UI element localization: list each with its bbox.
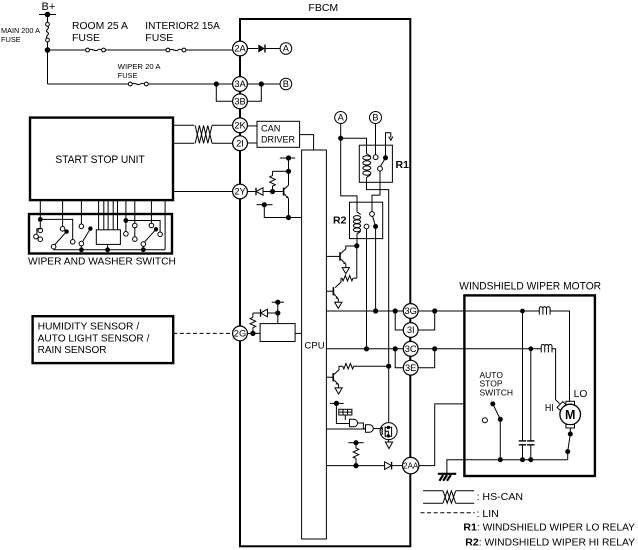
wire tick down to bottom rail (264, 205, 288, 218)
svg-text:2K: 2K (234, 121, 246, 131)
washer switch junction (38, 217, 43, 222)
washer contact 1 (38, 228, 43, 233)
svg-text:M: M (565, 408, 575, 422)
arrow feed marker (389, 137, 393, 141)
connector B top (280, 78, 292, 90)
junction left of 3A for 3B loop (214, 81, 219, 86)
label CAN DRIVER (261, 124, 295, 145)
auto stop switch pivot (498, 417, 503, 422)
svg-text:A: A (338, 113, 345, 123)
wire bottom rail to CPU (289, 217, 302, 219)
node 3E (403, 360, 418, 375)
svg-text:: HS-CAN: : HS-CAN (477, 491, 524, 503)
wire CPU to MOSFET gate (326, 428, 365, 430)
relay R2 armature lever (373, 216, 376, 226)
wire washer branch (40, 219, 72, 239)
washer branch contact (70, 240, 75, 245)
wire choke to HI brush (552, 349, 560, 404)
connector A inside FBCM (335, 112, 347, 124)
wire supply to input box top (277, 302, 279, 323)
junction bus mist (141, 247, 146, 252)
node 3G (403, 304, 418, 319)
svg-text:INTERIOR2 15A: INTERIOR2 15A (145, 21, 220, 32)
node 3A (233, 77, 248, 92)
switch box connector wires from SSU (40, 200, 165, 249)
svg-text:CAN: CAN (261, 124, 280, 134)
wire A junction down to R2 coil (341, 138, 357, 211)
junction R2 driver node (354, 243, 359, 248)
resistor R1 drive (341, 364, 389, 369)
wire junction down to wiper fuse line (47, 50, 49, 84)
wire C2 to bus (80, 246, 82, 250)
wire A down to feed junction (340, 124, 342, 139)
choke coil LO (539, 307, 550, 315)
diode D1 at 2A output (258, 45, 265, 53)
wire 2Y to input diode (247, 191, 256, 193)
label ROOM 25 A FUSE (72, 21, 128, 44)
svg-text:ROOM 25 A: ROOM 25 A (72, 21, 128, 32)
mist contact right (158, 232, 163, 237)
junction A feed (338, 136, 343, 141)
wire diode to supply (268, 312, 278, 314)
wire R1 common to feed arrow (386, 133, 391, 158)
mist contact L4 (124, 232, 129, 237)
svg-text:R2: R2 (465, 536, 479, 548)
wire pivot to ground bus (499, 419, 501, 459)
switch ground bus (54, 248, 166, 251)
connector A top (280, 43, 292, 55)
svg-text:MAIN 200 A: MAIN 200 A (1, 28, 40, 35)
node 3B (233, 94, 248, 109)
wire 3B loop left (216, 84, 232, 101)
svg-text:B: B (372, 113, 378, 123)
wire 3C line inside motor box (464, 348, 541, 350)
relay R1 box (359, 145, 392, 182)
svg-text:2Y: 2Y (234, 187, 245, 197)
wire choke to LO brush (550, 311, 569, 401)
node 2AA (403, 457, 419, 473)
svg-text:AUTO LIGHT SENSOR /: AUTO LIGHT SENSOR / (38, 333, 150, 344)
junction bus C (79, 247, 84, 252)
junction bus auto stop (498, 457, 503, 462)
wiper lever pivot C3 (88, 226, 92, 230)
svg-text:FUSE: FUSE (145, 33, 173, 44)
junction bus washer (105, 247, 110, 252)
label MAIN 200 A FUSE (1, 28, 40, 44)
svg-text:CPU: CPU (305, 341, 325, 352)
wire ROOM fuse to INTERIOR2 fuse (105, 49, 166, 51)
svg-text:2I: 2I (236, 138, 244, 148)
wire emitter down to bottom rail (288, 198, 290, 217)
relay R1 contact NC from B (373, 155, 378, 160)
node 3I (403, 323, 418, 338)
resistor pull-up at 2Y (270, 171, 276, 191)
wire 2I to CAN DRIVER (247, 142, 257, 144)
wire twisted pair to 2K (212, 124, 233, 126)
wire R2 coil bottom to driver node (356, 235, 358, 246)
svg-text:START STOP UNIT: START STOP UNIT (55, 154, 145, 166)
supply tick 2AA pull-up (348, 440, 363, 445)
wire 3E loop right (418, 349, 435, 368)
junction 3I loop left (393, 308, 398, 313)
wire 3C to motor (418, 348, 464, 350)
dashed LIN wire to 2G (173, 332, 232, 334)
node 2K (233, 118, 248, 133)
svg-text:WIPER AND WASHER SWITCH: WIPER AND WASHER SWITCH (28, 256, 176, 268)
svg-text:2A: 2A (234, 44, 246, 54)
twisted pair HS-CAN to 2K 2I (195, 126, 212, 144)
mist switch junction (124, 218, 129, 223)
wire supply tick to collector node (288, 158, 290, 171)
diode to 2AA (385, 462, 392, 470)
legend HS-CAN symbol (423, 491, 474, 503)
fuse ROOM 25 A (86, 48, 106, 52)
ground arrow Q4 (385, 442, 392, 449)
junction bus cap2 (528, 457, 533, 462)
oscillator box (339, 409, 352, 420)
connector B inside FBCM (370, 112, 382, 124)
relay R2 NO contact (364, 224, 369, 229)
svg-text:3I: 3I (407, 325, 415, 335)
wire fusible link to junction (47, 42, 49, 50)
svg-text:WINDSHIELD WIPER MOTOR: WINDSHIELD WIPER MOTOR (459, 281, 601, 293)
wire FBCM edge below 2G (239, 341, 241, 546)
mist contact L5a (133, 223, 138, 228)
mist lever (144, 229, 156, 242)
WINDSHIELD WIPER MOTOR box (464, 295, 595, 476)
wire CAN DRIVER to CPU (300, 135, 314, 150)
transistor Q1 R2 driver (326, 246, 356, 268)
junction 3I loop right (432, 308, 437, 313)
wire A junction to R1 coil (341, 138, 367, 153)
node 2Y (233, 184, 248, 199)
wire washer unit to bus (107, 244, 109, 249)
wire junction to connector B (261, 83, 280, 85)
junction R2 common on 3G line (373, 308, 378, 313)
FBCM box (240, 19, 410, 546)
node 3C (403, 341, 418, 356)
junction 2G divider (250, 331, 255, 336)
transistor Q5 at 2Y (284, 171, 289, 198)
washer switch pole wire (39, 219, 41, 228)
wire FBCM edge 2Y to 2G (239, 199, 241, 326)
wire twisted pair to 2I (212, 142, 233, 144)
relay R1 coil (363, 153, 371, 178)
buffer gate G1 (350, 419, 358, 427)
wire diode to connector A (265, 48, 280, 50)
svg-text:R1: R1 (396, 159, 410, 171)
wire driver node to resistor (356, 246, 358, 278)
motor M (557, 401, 580, 428)
wire 3A to junction right (248, 83, 262, 85)
transistor Q2 (326, 278, 341, 302)
legend LIN dashed (421, 512, 475, 514)
svg-text:R1: R1 (463, 521, 477, 533)
wire G2 to MOSFET gate (373, 428, 381, 430)
commutator dot upper (568, 432, 573, 437)
wiper switch lever B (55, 232, 67, 245)
svg-text:: WINDSHIELD WIPER HI RELAY: : WINDSHIELD WIPER HI RELAY (479, 536, 635, 548)
fuse INTERIOR2 15A (166, 48, 186, 52)
svg-text:B+: B+ (42, 1, 56, 13)
node 2A (233, 41, 248, 56)
capacitor C1 (519, 311, 526, 460)
svg-text:DRIVER: DRIVER (261, 135, 295, 145)
wire SSU to 2Y (173, 191, 233, 193)
washer contact 3 (34, 234, 39, 239)
wire R2 NO down to 3C line (366, 229, 368, 349)
wire R2 common down to 3G line (375, 229, 377, 311)
mist moving contact (141, 242, 146, 247)
svg-text:FBCM: FBCM (308, 2, 338, 14)
junction bus cap1 (520, 457, 525, 462)
WIPER AND WASHER SWITCH box (29, 214, 172, 254)
clamp diode at 2G (261, 309, 268, 317)
wire SSU to twisted pair bottom (173, 142, 194, 144)
wiper switch contact C1 (79, 224, 84, 229)
ground arrow Q1 (342, 268, 349, 274)
label AUTO STOP SWITCH (480, 370, 514, 397)
wire B down to R1 contact (375, 124, 377, 155)
ground arrow Q3 (335, 388, 342, 394)
junction at 2Y base node (270, 189, 275, 194)
wire diode to 2AA node (392, 465, 403, 467)
svg-text:2AA: 2AA (403, 462, 419, 471)
wire tick to gate chain (336, 403, 349, 423)
wire 2K to CAN DRIVER (247, 125, 257, 127)
commutator link (568, 434, 571, 452)
wire 3B loop right (248, 84, 262, 101)
resistor 2AA pull-up (353, 443, 359, 466)
wire resistor to collector node (273, 170, 289, 172)
svg-text:FUSE: FUSE (72, 33, 100, 44)
relay R2 coil (353, 211, 360, 234)
relay R1 NO contact (378, 166, 383, 171)
wire SSU to twisted pair top (173, 124, 194, 126)
relay R2 box (350, 202, 383, 238)
wire diode to base node (263, 191, 284, 193)
wire 3G line inside motor box (464, 310, 539, 312)
svg-text:3E: 3E (405, 363, 416, 373)
wiper switch lever pivot B2 (64, 229, 68, 233)
svg-text:3B: 3B (234, 97, 245, 107)
svg-text:2G: 2G (234, 329, 246, 339)
buffer gate G2 (366, 425, 374, 432)
wire mist contact to bus (142, 246, 144, 249)
supply tick at 2G (272, 300, 284, 305)
wire 2A to 3A on FBCM edge (239, 56, 241, 78)
CAN DRIVER box (257, 121, 300, 147)
svg-text:B: B (283, 79, 289, 89)
label WIPER 20 A FUSE (118, 64, 161, 80)
wiper switch contact B3 (51, 244, 56, 249)
wiper contact C2 (79, 241, 84, 246)
junction emitter bottom rail (286, 215, 291, 220)
svg-text:3C: 3C (405, 344, 417, 354)
wire 3E loop left (395, 349, 403, 368)
svg-text:3G: 3G (404, 306, 416, 316)
resistor R2 base chain (341, 276, 357, 281)
supply tick above 2Y transistor (280, 155, 295, 160)
HUMIDITY SENSOR box (33, 316, 174, 363)
wire commutator to ground bus (567, 452, 569, 460)
mist wrap wire (126, 221, 160, 233)
wire 3I loop left (395, 311, 403, 330)
svg-text:: LIN: : LIN (477, 508, 499, 520)
junction diode supply (275, 310, 280, 315)
svg-text:3A: 3A (234, 79, 246, 89)
diode at 2Y input (256, 188, 263, 196)
relay R2 input contact from R1 (370, 212, 375, 217)
wire 2AA to auto stop switch (419, 404, 465, 466)
washer bracket wire (37, 229, 41, 234)
wiper switch contact B1 (60, 227, 65, 232)
chassis ground motor (438, 474, 456, 481)
svg-text:A: A (283, 44, 290, 54)
svg-text:HI: HI (545, 402, 554, 414)
wire R1 NO output to R2 common (372, 171, 380, 211)
commutator dot lower (565, 449, 570, 454)
supply tick oscillator (330, 401, 344, 406)
junction capacitor 2 tap (528, 346, 533, 351)
wire WIPER fuse to node 3A (148, 83, 232, 85)
fuse WIPER 20 A (128, 82, 148, 86)
wire MOSFET source down (388, 440, 390, 442)
junction collector node (286, 169, 291, 174)
svg-text:: WINDSHIELD WIPER LO RELAY: : WINDSHIELD WIPER LO RELAY (477, 521, 635, 533)
node 2G (233, 326, 248, 341)
ground arrow Q2 (335, 302, 342, 308)
wire resistor to clamp diode (253, 312, 261, 314)
svg-text:WIPER 20 A: WIPER 20 A (118, 64, 161, 71)
wire MOSFET drain up (388, 369, 390, 423)
wire FBCM edge 2I to 2Y (239, 151, 241, 185)
junction right of 3A (259, 81, 264, 86)
relay R1 common pivot (383, 155, 388, 160)
mist contact L5b (133, 237, 138, 242)
capacitor C2 (527, 349, 534, 460)
svg-text:RAIN SENSOR: RAIN SENSOR (38, 345, 107, 356)
wire 3G to motor (418, 310, 464, 312)
CPU box (302, 150, 327, 539)
wire 3I loop right (418, 311, 435, 330)
washer contact 2 (38, 237, 43, 242)
mist contact L6 (149, 223, 154, 228)
fusible link MAIN 200 A FUSE (46, 22, 50, 41)
svg-text:FUSE: FUSE (1, 37, 21, 44)
ground bus inside motor (464, 459, 567, 461)
junction R1 coil column resistor (386, 364, 391, 369)
mist lever pivot (154, 227, 158, 231)
wire L5 chain (134, 228, 136, 237)
svg-text:SWITCH: SWITCH (480, 387, 514, 397)
wire B+ to fusible link (47, 15, 49, 23)
wire motor lower brush to commutator (569, 428, 571, 434)
junction pull-up on 2AA line (353, 463, 358, 468)
START STOP UNIT box (30, 118, 173, 201)
svg-text:FUSE: FUSE (118, 73, 138, 80)
auto stop switch contact feed (490, 401, 495, 406)
choke coil HI (541, 344, 552, 352)
junction capacitor 1 tap (520, 309, 525, 314)
wire 2A to diode (248, 48, 259, 50)
wire bus to chassis ground (447, 460, 465, 474)
wire INTERIOR2 fuse to node 2A (186, 49, 233, 51)
wire CPU to 2AA line (326, 465, 384, 467)
junction at B+ bus (45, 47, 51, 53)
relay R2 common pivot (373, 224, 378, 229)
junction R2 NO on 3C line (364, 346, 369, 351)
wire junction to ROOM fuse (48, 49, 86, 51)
wire 2G to input box (247, 332, 260, 334)
node 2I (233, 136, 248, 151)
auto stop switch open contact (482, 418, 487, 423)
wiper lever C (83, 229, 91, 242)
auto stop switch lever (493, 404, 501, 419)
transistor Q3 R1 driver (326, 366, 340, 388)
wire CPU to 3G line (326, 310, 403, 312)
wire CPU to 3C line (326, 348, 403, 350)
wire to WIPER fuse (48, 83, 129, 85)
junction 3E loop left (393, 346, 398, 351)
label INTERIOR2 15A FUSE (145, 21, 220, 44)
wire G1 to G2 (358, 423, 366, 429)
junction 3E loop right (432, 346, 437, 351)
label HUMIDITY / AUTO LIGHT / RAIN SENSOR (38, 322, 150, 357)
svg-text:R2: R2 (333, 215, 347, 227)
svg-text:LO: LO (574, 389, 588, 400)
battery terminal B+ (39, 1, 56, 17)
resistor at 2G (250, 313, 256, 333)
washer unit box (96, 230, 120, 245)
wire input box to CPU (295, 332, 302, 334)
wire R1 coil bottom to MOSFET column (367, 178, 389, 363)
supply tick lower left of 2Y circuit (257, 202, 273, 207)
svg-text:HUMIDITY SENSOR /: HUMIDITY SENSOR / (38, 322, 140, 333)
MOSFET Q4 (380, 423, 397, 440)
2G input buffer box (260, 324, 295, 342)
relay R1 armature lever (381, 158, 386, 167)
